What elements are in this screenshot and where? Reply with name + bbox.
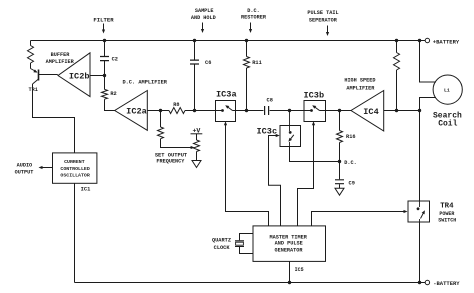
svg-text:SET OUTPUT: SET OUTPUT [155,152,188,158]
wire IC3c control from timer [276,134,280,137]
svg-text:IC4: IC4 [363,107,378,117]
svg-text:BUFFER: BUFFER [51,52,71,58]
wire top rail to R11 [246,41,248,57]
node IC3c branch [288,109,291,112]
node IC2b output [103,74,106,77]
node top-rail C6 tap [193,39,196,42]
terminal +BATTERY [425,38,429,42]
svg-text:L1: L1 [444,87,450,93]
svg-text:IC3c: IC3c [256,126,277,136]
svg-text:IC2a: IC2a [126,107,147,117]
terminal -BATTERY [425,280,429,284]
resistor top-left (unlabeled) [28,46,34,64]
svg-text:IC2b: IC2b [69,72,90,82]
capacitor C8 [265,106,269,115]
svg-text:AMPLIFIER: AMPLIFIER [46,59,75,65]
svg-text:C9: C9 [349,180,355,186]
svg-text:AMPLIFIER: AMPLIFIER [346,85,375,91]
block IC1 current controlled oscillator [53,153,97,183]
svg-text:C2: C2 [112,56,118,62]
wire TR4 to -batt rail [419,222,421,283]
wire IC3a control from timer [224,121,227,125]
svg-text:D.C.: D.C. [247,8,259,14]
op-amp IC4 [351,91,384,132]
wire node to R2 [104,76,106,90]
svg-text:GENERATOR: GENERATOR [274,247,303,253]
svg-text:Coil: Coil [438,119,457,128]
node TR4 bottom tap [418,281,421,284]
wire IC2a out [147,110,169,112]
wire resistor to wiper [161,139,192,148]
wire IC4 out to coil [384,110,420,112]
node top-rail coil-R tap [395,39,398,42]
supply arrow -V below pot [192,161,201,168]
wire R8 to IC3a [185,110,216,112]
crystal quartz clock [240,234,254,254]
svg-text:QUARTZ: QUARTZ [212,238,231,244]
op-amp IC2b [58,53,90,97]
svg-text:IC5: IC5 [295,267,304,273]
svg-text:R11: R11 [252,60,262,66]
svg-text:FREQUENCY: FREQUENCY [156,159,185,165]
wire IC2b out to C2/R2 node [90,75,105,77]
transistor TR4 power switch [408,201,430,222]
wire +battery top rail [31,40,426,42]
svg-text:FILTER: FILTER [93,16,114,23]
wire -battery bottom rail [75,282,426,284]
svg-text:-BATTERY: -BATTERY [433,280,460,287]
inductor L1 search coil [433,75,462,104]
node set-freq tap [159,109,162,112]
svg-text:CLOCK: CLOCK [214,245,231,251]
svg-text:IC3b: IC3b [303,90,324,100]
wire audio output arrow [42,167,53,169]
wire top rail to C6 [194,41,196,60]
capacitor C9 [339,162,341,180]
wire tap down to resistor [160,111,162,128]
svg-text:+BATTERY: +BATTERY [433,38,460,45]
potentiometer set output frequency [196,134,198,140]
node coil-R tap [395,109,398,112]
svg-text:AUDIO: AUDIO [17,163,33,169]
op-amp IC2a [115,91,148,131]
svg-text:PULSE TAIL: PULSE TAIL [307,10,338,16]
capacitor C6 [190,60,199,64]
supply arrow -V below C9 [335,188,344,195]
svg-text:R2: R2 [110,91,116,97]
wire R11 to signal line [246,68,248,111]
wire +batt down to coil [420,41,437,83]
wire IC5 to -batt rail [289,261,291,282]
resistor R2 [102,89,108,99]
svg-text:C8: C8 [267,98,273,104]
wire TR1 base to IC2b [39,74,58,76]
node IC4 input [338,109,341,112]
resistor R16 [339,111,341,131]
capacitor C2 [100,57,109,61]
svg-text:SAMPLE: SAMPLE [195,8,214,14]
svg-text:HIGH SPEED: HIGH SPEED [344,78,375,84]
node R11 signal tap [245,109,248,112]
node C6 tap on signal line [193,109,196,112]
wire IC3a out to C8 [236,110,264,112]
wire resistor to TR1 emitter [30,63,32,69]
wire IC3b out to IC4 [326,110,352,112]
wire IC1 to -batt rail [74,183,76,282]
resistor R8 [169,108,185,114]
svg-text:AND HOLD: AND HOLD [191,15,216,21]
resistor to +batt (unlabeled) [396,41,398,53]
svg-text:IC3a: IC3a [216,89,237,99]
wire coil bottom lead down to TR4 [420,98,437,202]
svg-text:OSCILLATOR: OSCILLATOR [60,173,89,179]
wire C8 to IC3b [270,110,304,112]
node top-rail C2 tap [103,39,106,42]
svg-text:CONTROLLED: CONTROLLED [60,166,89,172]
node IC5 ground [288,281,291,284]
svg-text:SEPERATOR: SEPERATOR [309,17,338,23]
wire R2 to IC2a input [105,99,115,110]
wire +V bar [191,133,203,135]
wire C2 to node [104,61,106,76]
svg-text:RESTORER: RESTORER [241,15,267,21]
block IC5 master timer and pulse generator [253,226,326,262]
wiper arrow into pot [191,146,195,149]
wire TR4 control from timer [312,212,404,226]
node top-rail R11 tap [245,39,248,42]
wire C6 to signal line [194,64,196,110]
wire TR1 collector down-right to IC1 osc [33,84,75,153]
svg-text:IC1: IC1 [81,187,91,193]
svg-text:R8: R8 [173,102,179,108]
svg-text:CURRENT: CURRENT [64,159,85,165]
svg-text:D.C. AMPLIFIER: D.C. AMPLIFIER [122,80,167,86]
svg-text:D.C.: D.C. [344,160,356,166]
resistor R11 [244,57,250,69]
wire left rail down from top [30,41,32,46]
svg-text:AND PULSE: AND PULSE [275,241,303,247]
svg-text:POWER: POWER [439,211,454,217]
node D.C. [338,160,341,163]
wire IC3b control from timer [312,121,315,125]
transistor TR1 [38,70,40,81]
svg-text:MASTER TIMER: MASTER TIMER [270,234,308,240]
svg-text:R16: R16 [346,134,356,140]
svg-text:OUTPUT: OUTPUT [15,169,34,175]
wire top rail to C2 [104,41,106,57]
node coil drive [418,109,421,112]
svg-text:TR4: TR4 [440,203,454,211]
svg-text:SWITCH: SWITCH [438,217,456,223]
node top-rail coil drop [418,39,421,42]
svg-text:TR1: TR1 [29,87,38,93]
svg-text:C6: C6 [205,60,211,66]
wire IC3c out to D.C. node [290,147,340,162]
resistor set-freq series [158,127,164,139]
